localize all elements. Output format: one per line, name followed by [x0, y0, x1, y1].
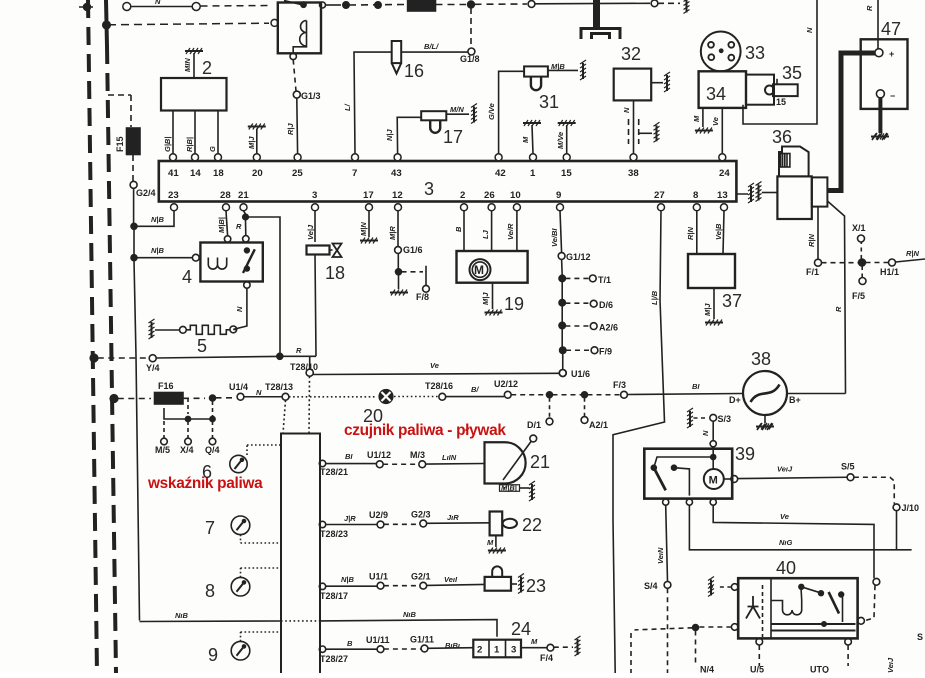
- svg-text:N: N: [155, 0, 161, 6]
- wire 32 right ground: [651, 72, 670, 92]
- svg-text:UTQ: UTQ: [810, 665, 829, 674]
- svg-text:8: 8: [693, 190, 699, 201]
- terminal M|J pin20: [248, 124, 266, 154]
- svg-text:Ve|J: Ve|J: [306, 224, 315, 240]
- svg-text:N/4: N/4: [700, 665, 714, 674]
- svg-text:B/: B/: [471, 385, 479, 394]
- svg-text:BI: BI: [345, 452, 353, 461]
- svg-text:VeıJ: VeıJ: [886, 657, 895, 673]
- svg-text:23: 23: [168, 190, 179, 201]
- wire F/3 to D+: [628, 394, 744, 395]
- svg-text:R|J: R|J: [286, 122, 295, 135]
- svg-text:27: 27: [654, 190, 665, 201]
- svg-text:D/6: D/6: [599, 300, 613, 310]
- svg-text:25: 25: [292, 168, 303, 179]
- fuse F15: [108, 95, 140, 181]
- svg-text:Ve: Ve: [711, 117, 720, 126]
- svg-text:JıR: JıR: [447, 513, 459, 522]
- svg-text:2: 2: [477, 645, 482, 656]
- shield dashes pin38: [629, 119, 660, 144]
- wire Ve to 40: [713, 505, 880, 624]
- svg-text:G2/1: G2/1: [411, 572, 431, 582]
- wire 32 N to pin38: [633, 100, 635, 153]
- svg-text:28: 28: [220, 190, 231, 201]
- svg-text:M: M: [692, 115, 701, 122]
- svg-text:U1/1: U1/1: [369, 572, 388, 582]
- gauge 6: [230, 445, 281, 473]
- svg-text:L/: L/: [343, 103, 352, 111]
- svg-text:15: 15: [776, 97, 786, 107]
- svg-text:12: 12: [392, 190, 403, 201]
- wire 36 diagonal R: [827, 201, 845, 394]
- svg-text:LJ: LJ: [481, 229, 490, 239]
- svg-text:1: 1: [494, 645, 500, 656]
- svg-text:U1/4: U1/4: [229, 382, 248, 392]
- svg-text:N|B: N|B: [151, 215, 165, 224]
- svg-text:F16: F16: [158, 381, 174, 391]
- svg-text:9: 9: [208, 645, 218, 665]
- svg-text:S: S: [917, 632, 923, 642]
- distributor 34: [699, 71, 746, 108]
- battery 47: [861, 0, 908, 109]
- node G2/4: [130, 181, 137, 223]
- svg-text:N: N: [805, 27, 814, 33]
- bus bottom pin circles: [171, 204, 728, 211]
- svg-text:M: M: [531, 637, 538, 646]
- wire B+ to R: [787, 393, 846, 395]
- svg-text:Ve/BI: Ve/BI: [550, 228, 559, 247]
- wire pin12 G1/6: [390, 211, 429, 296]
- wire Y/4 row: [90, 353, 316, 376]
- svg-text:R: R: [296, 346, 302, 355]
- svg-text:Ve|B: Ve|B: [714, 223, 723, 240]
- svg-text:15: 15: [561, 168, 572, 179]
- svg-text:BI: BI: [692, 382, 700, 391]
- svg-text:U1/12: U1/12: [367, 450, 391, 460]
- wire dashed row y24 to relay1: [108, 19, 278, 26]
- svg-text:R: R: [236, 222, 242, 231]
- terminal MIN of unit 2: [185, 48, 203, 78]
- regulator 40 box: [738, 578, 857, 638]
- wire pin28 to relay4: [226, 211, 228, 236]
- svg-text:N: N: [256, 388, 262, 397]
- svg-text:3: 3: [511, 645, 516, 656]
- wire NIG: [689, 505, 911, 550]
- svg-text:18: 18: [213, 168, 224, 179]
- wire left dashed rail 1: [88, 0, 97, 673]
- svg-text:F/8: F/8: [416, 292, 429, 302]
- svg-text:2: 2: [460, 190, 465, 201]
- svg-text:D/1: D/1: [527, 420, 541, 430]
- svg-text:36: 36: [772, 127, 792, 147]
- svg-text:M/N: M/N: [450, 105, 464, 114]
- svg-text:+: +: [889, 49, 894, 59]
- svg-text:M|J: M|J: [703, 303, 712, 316]
- svg-text:G/Ve: G/Ve: [487, 103, 496, 120]
- svg-text:S/4: S/4: [644, 581, 658, 591]
- node X/1 F/5 junction: [822, 235, 925, 285]
- wire 34 Ve to pin24: [721, 108, 723, 154]
- wire Ve|N to S/4: [664, 505, 671, 673]
- svg-text:M: M: [474, 263, 484, 277]
- node dot NB1: [131, 211, 174, 255]
- svg-text:M|J: M|J: [247, 136, 256, 149]
- wire 36 to F/1: [815, 207, 822, 267]
- svg-text:G1/6: G1/6: [403, 245, 423, 255]
- wire 31 right ground: [548, 60, 586, 80]
- svg-text:17: 17: [443, 127, 463, 147]
- ground hatch top right of coil: [684, 0, 690, 14]
- svg-text:T28/16: T28/16: [425, 381, 453, 391]
- unit 37: [688, 211, 735, 326]
- sensor 17: [421, 111, 446, 133]
- svg-text:24: 24: [719, 168, 730, 179]
- injector 16: [392, 41, 402, 74]
- svg-text:LıIN: LıIN: [442, 453, 457, 462]
- row T28/23 to switch 22: [319, 520, 489, 528]
- svg-text:14: 14: [190, 168, 201, 179]
- svg-text:20: 20: [252, 168, 263, 179]
- svg-text:T28/10: T28/10: [290, 362, 318, 372]
- svg-text:R: R: [834, 306, 843, 312]
- svg-text:B/L/: B/L/: [424, 42, 439, 51]
- svg-text:J/10: J/10: [902, 503, 920, 513]
- svg-text:G2/4: G2/4: [136, 188, 156, 198]
- svg-text:U/5: U/5: [750, 665, 764, 674]
- svg-text:Ve: Ve: [430, 361, 439, 370]
- wire 36 left ground: [756, 182, 778, 202]
- svg-text:U2/9: U2/9: [369, 510, 388, 520]
- svg-text:7: 7: [205, 518, 215, 538]
- node dots right of relay1: [343, 2, 404, 8]
- svg-text:G2/3: G2/3: [411, 510, 431, 520]
- node junction rail1 top: [79, 4, 95, 11]
- unit 2 box: [161, 78, 227, 111]
- svg-text:A2/1: A2/1: [589, 420, 608, 430]
- svg-text:7: 7: [352, 168, 357, 179]
- svg-text:G: G: [208, 146, 217, 152]
- wire 17 right ground: [446, 104, 477, 124]
- bus right ground: [736, 183, 754, 203]
- svg-text:26: 26: [484, 190, 495, 201]
- svg-text:L|/B: L|/B: [650, 290, 659, 305]
- fuse top black: [408, 1, 436, 12]
- svg-text:9: 9: [556, 190, 561, 201]
- node A2/1: [581, 398, 588, 424]
- svg-text:F/4: F/4: [540, 653, 553, 663]
- svg-text:VeıN: VeıN: [656, 547, 665, 564]
- wire 31 left to pin42: [499, 71, 524, 154]
- resistor 5: [149, 319, 237, 339]
- svg-text:34: 34: [706, 84, 726, 104]
- bus connector 3: [159, 161, 737, 202]
- svg-text:F/1: F/1: [806, 267, 819, 277]
- svg-text:G|B|: G|B|: [163, 137, 172, 152]
- wire dashed after fuse: [436, 0, 681, 45]
- svg-text:13: 13: [717, 190, 728, 201]
- pins 40 bottom: [756, 638, 851, 666]
- svg-text:T28/13: T28/13: [265, 382, 293, 392]
- row T28/27 to unit 24: [319, 645, 473, 653]
- svg-text:T/1: T/1: [598, 275, 611, 285]
- lamp 20 row dotted: [289, 389, 511, 404]
- node dot NB2: [131, 255, 192, 621]
- svg-text:N|J: N|J: [385, 128, 394, 141]
- distributor cap 33: [701, 32, 741, 72]
- wire battery thick to 36: [827, 53, 875, 191]
- svg-text:M: M: [521, 136, 530, 143]
- wire pin21 junction R: [243, 211, 280, 354]
- wire relay4 to resistor5: [233, 288, 247, 329]
- svg-text:M/3: M/3: [410, 450, 425, 460]
- svg-text:3: 3: [424, 179, 434, 199]
- svg-text:N|B: N|B: [341, 575, 355, 584]
- svg-text:Y/4: Y/4: [146, 363, 160, 373]
- svg-text:A2/6: A2/6: [599, 323, 618, 333]
- svg-text:Ve/R: Ve/R: [506, 223, 515, 240]
- svg-text:Ve: Ve: [780, 512, 789, 521]
- svg-text:37: 37: [722, 291, 742, 311]
- svg-text:2: 2: [202, 58, 212, 78]
- svg-text:NıG: NıG: [779, 538, 793, 547]
- svg-text:39: 39: [735, 444, 755, 464]
- wire 17 left to pin43: [397, 117, 421, 154]
- svg-text:17: 17: [363, 190, 374, 201]
- svg-text:BıBı: BıBı: [445, 641, 460, 650]
- svg-text:X/4: X/4: [180, 445, 194, 455]
- svg-text:T28/21: T28/21: [320, 467, 348, 477]
- svg-text:35: 35: [782, 63, 802, 83]
- svg-text:NıB: NıB: [403, 610, 417, 619]
- svg-text:M/5: M/5: [155, 445, 170, 455]
- wire Ve/J to S/5: [738, 474, 900, 550]
- relay K1 top: [278, 1, 341, 60]
- svg-text:R|N: R|N: [686, 226, 695, 240]
- terminal bracket M/5 X/4 Q/4: [161, 398, 216, 445]
- pin 40 left lower: [631, 624, 738, 673]
- svg-text:T28/23: T28/23: [320, 529, 348, 539]
- svg-text:T28/17: T28/17: [320, 591, 348, 601]
- pin 40 left upper: [708, 577, 738, 597]
- bus bottom pin numbers: [168, 190, 728, 201]
- svg-text:H1/1: H1/1: [880, 267, 899, 277]
- svg-text:S/3: S/3: [718, 414, 732, 424]
- svg-text:M|B|: M|B|: [501, 484, 517, 493]
- node junction rail2 top: [103, 21, 111, 29]
- svg-text:18: 18: [325, 263, 345, 283]
- svg-text:3: 3: [312, 190, 317, 201]
- svg-text:MIN: MIN: [183, 58, 192, 72]
- relay 39 box: [644, 447, 737, 505]
- svg-text:1: 1: [530, 168, 536, 179]
- svg-text:33: 33: [745, 43, 765, 63]
- svg-text:−: −: [890, 91, 895, 101]
- unit 32: [614, 69, 652, 101]
- svg-text:B+: B+: [789, 395, 801, 405]
- svg-text:M|B: M|B: [551, 62, 565, 71]
- switch 22: [488, 512, 517, 554]
- unit 24: [473, 636, 580, 657]
- svg-text:N: N: [622, 107, 631, 113]
- wire U2/12 dashed junctions F/3: [511, 391, 627, 398]
- svg-text:G1/12: G1/12: [566, 252, 591, 262]
- plug 35: [765, 79, 798, 96]
- svg-text:M: M: [487, 538, 494, 547]
- wire Ve T28/10 to U1/6: [313, 370, 566, 377]
- svg-text:N: N: [235, 306, 244, 312]
- svg-text:5: 5: [197, 336, 207, 356]
- svg-text:D+: D+: [729, 395, 741, 405]
- svg-text:23: 23: [526, 576, 546, 596]
- motor unit 19: [457, 211, 528, 316]
- svg-text:R|B|: R|B|: [185, 137, 194, 152]
- svg-text:M|R: M|R: [388, 226, 397, 240]
- unit 36: [777, 147, 827, 220]
- socket 34 right: [746, 75, 774, 105]
- terminal M pin1: [523, 120, 541, 154]
- wire pin9 chain: [558, 211, 598, 377]
- svg-text:M|J: M|J: [481, 292, 490, 305]
- svg-text:X/1: X/1: [852, 223, 866, 233]
- wires unit2 to bus pins 41 14 18: [173, 111, 218, 155]
- wire battery minus ground: [871, 98, 889, 140]
- svg-text:38: 38: [751, 349, 771, 369]
- wire pin27 L|B: [613, 211, 665, 673]
- svg-text:21: 21: [238, 190, 249, 201]
- svg-text:R: R: [865, 5, 874, 11]
- svg-text:42: 42: [495, 168, 506, 179]
- svg-text:VeıJ: VeıJ: [777, 465, 793, 474]
- svg-text:38: 38: [628, 168, 639, 179]
- svg-text:VeıІ: VeıІ: [444, 575, 458, 584]
- svg-text:40: 40: [776, 558, 796, 578]
- wire 16 right to G1/8: [401, 48, 475, 55]
- svg-text:NıB: NıB: [175, 611, 189, 620]
- wire 16 left to pin7: [354, 52, 392, 154]
- wire relay1 to G1/3: [293, 60, 300, 154]
- svg-text:M: M: [709, 475, 718, 487]
- svg-text:24: 24: [511, 619, 531, 639]
- wire top row y7: [123, 3, 272, 11]
- svg-text:22: 22: [522, 515, 542, 535]
- fuse F16 row: [110, 393, 289, 405]
- svg-text:6: 6: [202, 462, 212, 482]
- svg-text:M|N: M|N: [359, 222, 368, 236]
- switch 23: [485, 566, 524, 593]
- svg-text:47: 47: [881, 19, 901, 39]
- relay 4 box: [192, 236, 262, 289]
- gauge 8: [231, 568, 281, 596]
- svg-text:8: 8: [205, 581, 215, 601]
- node D/1: [546, 398, 553, 425]
- svg-text:16: 16: [404, 61, 424, 81]
- svg-text:Q/4: Q/4: [205, 445, 220, 455]
- ignition coil T top center: [581, 0, 620, 39]
- gauge 9: [231, 632, 281, 660]
- svg-text:F/3: F/3: [613, 380, 626, 390]
- bus top pin circles: [170, 154, 726, 161]
- svg-text:B: B: [454, 226, 463, 232]
- svg-text:T28/27: T28/27: [320, 654, 348, 664]
- svg-text:U2/12: U2/12: [494, 379, 518, 389]
- svg-text:43: 43: [391, 168, 402, 179]
- svg-text:U1/11: U1/11: [366, 635, 390, 645]
- valve 18: [307, 211, 342, 356]
- gauge cluster box: [281, 376, 320, 675]
- fuel sender 21: [485, 435, 537, 501]
- svg-text:F/5: F/5: [852, 291, 865, 301]
- svg-text:J|R: J|R: [344, 514, 356, 523]
- svg-text:4: 4: [182, 267, 192, 287]
- svg-text:G1/8: G1/8: [460, 54, 480, 64]
- svg-text:R|N: R|N: [807, 233, 816, 247]
- svg-text:R|N: R|N: [906, 249, 920, 258]
- svg-text:F15: F15: [115, 136, 125, 152]
- svg-text:19: 19: [504, 294, 524, 314]
- svg-text:32: 32: [621, 44, 641, 64]
- svg-text:M/Ve: M/Ve: [556, 132, 565, 149]
- svg-text:N|B: N|B: [151, 246, 165, 255]
- node S/3: [687, 408, 717, 447]
- svg-text:czujnik paliwa - pływak: czujnik paliwa - pływak: [344, 422, 506, 439]
- svg-text:S/5: S/5: [841, 462, 855, 472]
- svg-text:U1/6: U1/6: [571, 369, 590, 379]
- svg-text:31: 31: [539, 92, 559, 112]
- svg-text:41: 41: [168, 168, 179, 179]
- svg-text:10: 10: [510, 190, 521, 201]
- sensor 31: [524, 66, 548, 90]
- svg-text:21: 21: [530, 452, 550, 472]
- terminal M/Ve pin15: [558, 120, 576, 154]
- row T28/21 to sender 21: [319, 460, 484, 467]
- alternator 38: [743, 371, 787, 430]
- svg-text:F/9: F/9: [599, 347, 612, 357]
- row T28/17 to switch 23: [319, 582, 484, 589]
- wire pin17 ground: [360, 211, 378, 244]
- svg-text:M|B|: M|B|: [217, 217, 226, 233]
- wire N|B long: [140, 620, 498, 637]
- wire 34 M ground: [695, 108, 713, 134]
- svg-text:B: B: [347, 639, 353, 648]
- wire N loop 34: [743, 0, 817, 124]
- svg-text:G1/3: G1/3: [301, 91, 321, 101]
- gauge 7: [231, 516, 281, 543]
- wire left dashed rail 2: [106, 0, 107, 46]
- bus top pin numbers: [168, 168, 730, 179]
- svg-text:G1/11: G1/11: [410, 635, 434, 645]
- svg-text:N: N: [701, 430, 710, 436]
